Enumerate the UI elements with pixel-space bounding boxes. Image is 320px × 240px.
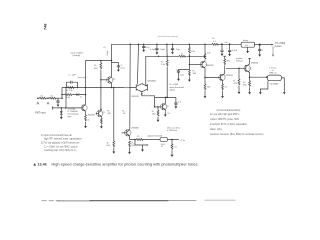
- wire QA emitter to QB base: [204, 68, 220, 78]
- node dots on signal line: [65, 87, 114, 89]
- wire rail corner down to first stage: [111, 44, 113, 60]
- svg-text:1.0µF: 1.0µF: [160, 49, 166, 51]
- svg-text:NIM out: NIM out: [269, 72, 277, 75]
- svg-text:High-speed charge-sensitive: High-speed charge-sensitive amplifier fo…: [52, 163, 199, 167]
- node dots bus x100.9: [100, 79, 102, 110]
- svg-text:1) Input circuit should have a: 1) Input circuit should have all: [41, 134, 72, 137]
- resistor 4.3k in second feedback path: [65, 94, 72, 99]
- svg-text:56: 56: [123, 113, 126, 115]
- wire to NIM driver base y68.3: [226, 68, 246, 70]
- svg-text:(circuit characteristics): (circuit characteristics): [217, 109, 241, 112]
- wire bus x137.5 from rail to push-pull: [137, 44, 138, 84]
- svg-text:2) For low capacity (<2pF) inp: 2) For low capacity (<2pF) inputs use: [41, 142, 80, 145]
- svg-text:R₁ 15k: R₁ 15k: [66, 90, 73, 92]
- svg-text:0.1µF: 0.1µF: [150, 49, 156, 51]
- wire bus x129.5 from rail to discriminator: [129, 44, 131, 128]
- transistor Q5a push-pull left: [136, 84, 142, 92]
- svg-text:(ferrite-bead property): (ferrite-bead property): [158, 35, 179, 38]
- svg-text:down threshold: down threshold: [170, 86, 185, 89]
- note diode type text: [68, 107, 80, 118]
- svg-text:4.3k: 4.3k: [66, 97, 71, 99]
- svg-text:430: 430: [243, 85, 247, 87]
- wire main signal line y87.5: [62, 87, 136, 89]
- transistor Q7 NIM driver: [244, 58, 259, 72]
- wire QB emitter: [221, 80, 228, 98]
- wire y97.4 Q6 collector node: [155, 97, 176, 99]
- svg-text:output: NIM/TTL pulse, 50Ω: output: NIM/TTL pulse, 50Ω: [210, 118, 239, 121]
- svg-text:0.1µF: 0.1µF: [107, 50, 109, 56]
- node base tap dot: [189, 64, 191, 66]
- ground of delay box: [246, 47, 249, 53]
- node threshold reference label: [180, 140, 186, 142]
- svg-text:51: 51: [225, 87, 228, 89]
- svg-text:Ω: Ω: [161, 146, 163, 148]
- svg-text:(this can drive: (this can drive: [167, 127, 181, 130]
- transistor QA output stage 1: [189, 61, 214, 68]
- transistor QB output stage 2: [219, 74, 234, 81]
- label TTL or NIM out: [269, 66, 277, 74]
- capacitor bypass 0.1uF at x156.9: [150, 44, 166, 54]
- svg-text:2N5835: 2N5835: [132, 96, 140, 98]
- diode D2 in feedback path: [76, 93, 82, 98]
- svg-text:2N5835: 2N5835: [88, 115, 96, 117]
- wire Q7 emitter node: [249, 72, 268, 78]
- svg-text:100: 100: [106, 145, 110, 147]
- node dots PMT input line: [61, 107, 67, 109]
- wire discriminator output y139.5: [130, 139, 179, 141]
- resistor Q4 emitter: [100, 118, 103, 128]
- svg-text:+5: +5: [103, 47, 106, 49]
- svg-text:2N5835: 2N5835: [206, 65, 214, 67]
- svg-text:1.0k: 1.0k: [161, 64, 166, 66]
- resistor input R 51 first: [40, 97, 47, 99]
- wire x154.6 down to base divider: [154, 97, 156, 107]
- wire input chain y98.2: [38, 97, 63, 99]
- svg-text:R₁₇: R₁₇: [212, 38, 215, 40]
- resistor input R 51 second: [50, 97, 57, 99]
- wire PMT input line y107.9 with stub terminal: [52, 106, 83, 109]
- scan artifact line bottom: [42, 199, 235, 202]
- ground stub under output wire: [272, 46, 274, 56]
- wire pot wiper arm: [135, 140, 149, 146]
- potentiometer threshold adjust: [147, 134, 167, 148]
- capacitor bypass C at x143.7: [142, 44, 150, 52]
- capacitor 0.01 on divider: [176, 69, 189, 81]
- wire feedback second path y94.6: [62, 94, 86, 96]
- resistor Q6 emitter 51: [164, 112, 171, 117]
- svg-text:precision resistors: (8ns, 5: precision resistors: (8ns, 50Ω) for over…: [210, 133, 264, 136]
- svg-text:follower: follower: [236, 60, 243, 63]
- node arrow marks under input resistors: [37, 102, 50, 104]
- svg-text:adjust: adjust: [170, 89, 176, 92]
- label emitter follower: [236, 57, 243, 63]
- svg-text:1.0k: 1.0k: [207, 52, 212, 54]
- svg-text:PMT input: PMT input: [35, 112, 46, 115]
- svg-text:TTL out: TTL out: [269, 66, 277, 69]
- resistor 51 to ground after pot: [171, 140, 178, 158]
- wire output arrow: [260, 44, 274, 46]
- resistor R 51 series in y139.5: [136, 136, 143, 140]
- svg-text:100: 100: [191, 51, 195, 53]
- delay line box DL1: [241, 40, 254, 47]
- transistor Q3 cascode: [101, 76, 116, 87]
- svg-text:Q₄: Q₄: [103, 112, 106, 114]
- resistor R1 15k in feedback: [66, 87, 74, 92]
- svg-text:Q₇: Q₇: [249, 68, 252, 70]
- svg-text:1k: 1k: [87, 119, 90, 121]
- caption figure 13.46: [33, 163, 198, 167]
- svg-text:type: type: [68, 115, 73, 118]
- svg-text:(see text): (see text): [78, 76, 87, 79]
- wire y106.9 Q6 base: [154, 106, 163, 108]
- svg-text:delay: 10ns: delay: 10ns: [210, 129, 223, 131]
- capacitor bypass 1.5uF at x172.5 with L-wire ground: [171, 44, 181, 54]
- svg-text:748: 748: [44, 23, 48, 30]
- svg-text:4.7µF: 4.7µF: [232, 50, 238, 52]
- svg-text:TTL (NIM): TTL (NIM): [275, 43, 286, 45]
- svg-text:4.7k: 4.7k: [233, 83, 238, 85]
- svg-text:D₂: D₂: [80, 97, 83, 99]
- svg-text:for use with high-gain PMT's: for use with high-gain PMT's: [210, 113, 240, 116]
- node TTL/NIM output label: [274, 43, 286, 48]
- capacitor 4.7uF tantalum at x229.6: [226, 44, 237, 56]
- node output junction: [259, 44, 261, 46]
- capacitor C1 1pF feedback loop: [67, 74, 87, 87]
- note right characteristics block: [210, 109, 264, 136]
- svg-text:160: 160: [207, 87, 211, 89]
- resistor series in signal line: [124, 87, 128, 88]
- wire push-pull emitter node: [141, 92, 155, 98]
- wire bus x189.4 divider with resistor: [189, 44, 196, 70]
- svg-text:220: 220: [107, 113, 111, 115]
- label push-pull transistors: [132, 80, 157, 98]
- label rotated 0.1uF beside bus: [107, 50, 109, 56]
- transistor Q1 input stage: [81, 103, 96, 117]
- svg-text:C₁ = 0.5pF; for use 'BNC' sour: C₁ = 0.5pF; for use 'BNC' source: [44, 145, 78, 148]
- wire coax return L to ground: [259, 81, 268, 95]
- transistor Q5b push-pull right: [142, 83, 148, 91]
- svg-text:R₁₅ 100Ω: R₁₅ 100Ω: [170, 84, 179, 86]
- svg-text:2N5866: 2N5866: [131, 127, 139, 129]
- wire bus x111.5 down to Q3 collector: [111, 61, 113, 77]
- wire bus x66 to PMT input node: [65, 88, 67, 108]
- transistor Q8 discriminator: [122, 127, 140, 139]
- svg-text:(charge): (charge): [73, 54, 81, 57]
- wire bus x62 input side: [61, 88, 63, 99]
- svg-text:51: 51: [167, 113, 170, 115]
- node dots feedback: [61, 94, 86, 96]
- svg-text:+: +: [226, 48, 228, 50]
- svg-text:adjust threshold: adjust threshold: [147, 134, 163, 137]
- svg-text:560: 560: [94, 68, 98, 70]
- capacitor bypass at x222: [220, 44, 223, 56]
- wire bus x205 collector load QA: [204, 44, 211, 61]
- svg-text:0.01: 0.01: [180, 74, 185, 76]
- svg-text:51: 51: [137, 136, 140, 138]
- svg-text:×: ×: [262, 49, 264, 52]
- wire coax right side to ground: [282, 78, 286, 95]
- coax cable box 50ohm: [267, 75, 281, 86]
- capacitor C3 0.01 from bus x111.5: [112, 63, 126, 72]
- svg-text:5.1: 5.1: [213, 41, 217, 43]
- svg-text:+1.5v: +1.5v: [180, 140, 186, 142]
- wire +5V top rail left segment: [112, 43, 213, 45]
- svg-text:51: 51: [174, 146, 177, 148]
- resistor 360 lower divider: [188, 70, 197, 82]
- wire bus x167.2 collector load: [161, 44, 168, 97]
- svg-text:Schottky: Schottky: [68, 107, 77, 110]
- note bypass text: [158, 35, 179, 38]
- svg-text:pulses: pulses: [274, 46, 282, 48]
- svg-text:Q₆: Q₆: [167, 105, 170, 107]
- svg-text:high 'RF' external 'stray' cap: high 'RF' external 'stray' capacitance: [44, 138, 82, 141]
- resistor R17 5.1 (series in +5V rail): [212, 38, 219, 45]
- wire bus x113.8 bias resistor leg: [106, 88, 115, 154]
- resistor Q8 emitter 100 to ground: [128, 141, 136, 154]
- svg-text:or: or: [272, 69, 274, 72]
- svg-text:(2N5866): (2N5866): [147, 80, 156, 82]
- resistor 4.7k bias to ground: [233, 68, 240, 94]
- svg-text:2N5835: 2N5835: [226, 75, 234, 77]
- node dots input chain: [37, 97, 63, 99]
- label input amplifier (charge): [71, 52, 84, 58]
- capacitor at output node: [258, 45, 264, 57]
- svg-text:50 (NIM): 50 (NIM): [270, 84, 278, 86]
- svg-text:390: 390: [226, 61, 230, 63]
- node dots on y60.5: [100, 60, 112, 62]
- capacitor C2 to ground on input chain: [56, 98, 59, 107]
- node +5 label at rail start: [103, 47, 106, 49]
- svg-text:360: 360: [193, 73, 197, 75]
- svg-text:0.01: 0.01: [121, 68, 126, 70]
- svg-text:2N5836: 2N5836: [251, 63, 259, 65]
- label R8 220 on bus x113.8: [107, 110, 111, 115]
- svg-text:13.46: 13.46: [38, 163, 47, 167]
- label R10 56 on bus x129.5: [123, 110, 127, 115]
- resistor 1k series in bias wire: [179, 54, 186, 58]
- svg-text:C₆: C₆: [176, 69, 179, 71]
- wire +5V rail right segment: [219, 43, 241, 45]
- label PMT input: [35, 112, 46, 115]
- wire loop right base to top feed: [146, 56, 205, 85]
- svg-text:1k: 1k: [181, 54, 184, 56]
- wire delay box output: [254, 44, 259, 46]
- note left footnote block: [41, 134, 82, 152]
- svg-text:DL: DL: [246, 45, 250, 47]
- svg-text:matching cap 1-5 (1.5pF) for C: matching cap 1-5 (1.5pF) for C₁: [44, 149, 77, 152]
- capacitor 0.1 at Q6 collector: [174, 97, 181, 108]
- wire y60.5 collector feed: [86, 60, 112, 62]
- svg-text:Q₃: Q₃: [113, 78, 116, 80]
- svg-text:a 50Ω line): a 50Ω line): [167, 130, 177, 132]
- svg-text:input amplifier: input amplifier: [71, 52, 84, 55]
- note threshold text small: [170, 84, 185, 92]
- svg-text:C₁, 1pF: C₁, 1pF: [69, 74, 77, 76]
- svg-text:threshold: 50 fC (1.5pC), adj: threshold: 50 fC (1.5pC), adjustable: [210, 123, 247, 126]
- label 51 input resistors: [41, 96, 54, 98]
- svg-text:+5v: +5v: [224, 42, 228, 44]
- wire bus x100.9 with load resistor 560: [94, 61, 102, 110]
- resistor 430 Q7 emitter: [243, 77, 251, 94]
- resistor QA emitter 160: [204, 78, 212, 99]
- wire bus x85.5 (Q1 collector / feedback node): [85, 61, 87, 103]
- resistor 100 divider to ground: [152, 107, 160, 122]
- node dots y139.5: [134, 139, 173, 141]
- node dot loop/bus junction: [158, 56, 206, 58]
- diode D1 clamp to ground: [60, 108, 63, 119]
- transistor Q4 follower: [96, 109, 106, 118]
- note line-driver text: [167, 127, 181, 133]
- resistor QB collector 390: [223, 56, 231, 73]
- ground pot arm: [141, 145, 144, 152]
- node rail junction dots: [129, 43, 230, 45]
- node +5v label: [224, 42, 228, 44]
- transistor Q6: [160, 97, 169, 111]
- svg-text:100: 100: [152, 113, 156, 115]
- resistor Q1 emitter 1k: [84, 115, 90, 128]
- svg-text:1.5µ: 1.5µ: [176, 49, 181, 51]
- svg-text:0.1: 0.1: [178, 102, 182, 104]
